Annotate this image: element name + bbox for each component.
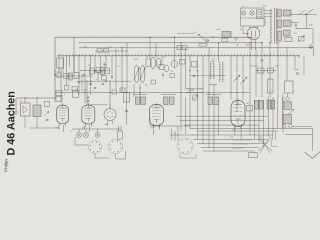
svg-text:Philips: Philips [4,158,9,172]
svg-text:D 46 Aachen: D 46 Aachen [5,91,17,155]
